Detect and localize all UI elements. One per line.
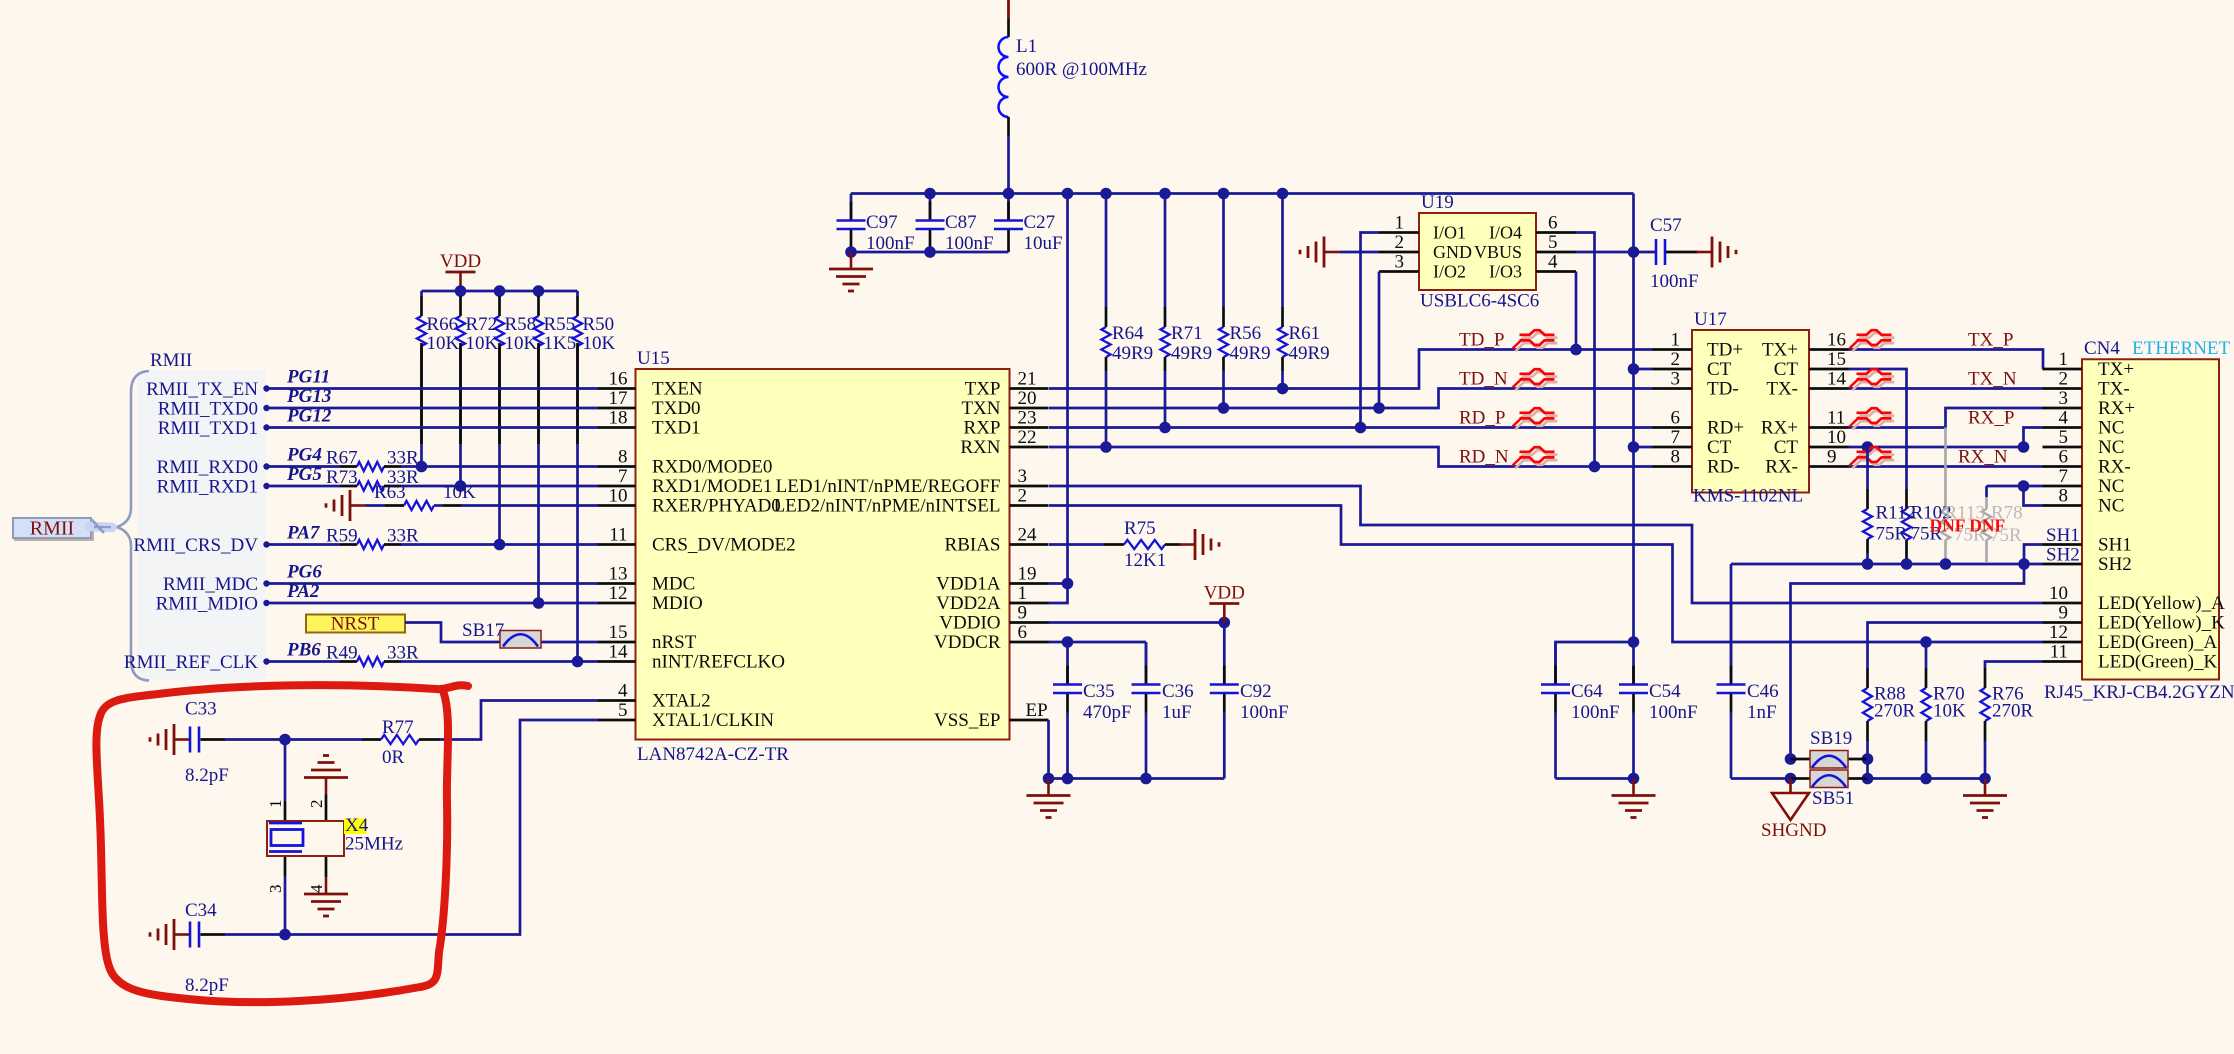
svg-text:R61: R61 bbox=[1289, 323, 1321, 344]
svg-text:100nF: 100nF bbox=[1650, 271, 1699, 292]
svg-text:NC: NC bbox=[2098, 496, 2124, 517]
svg-text:I/O4: I/O4 bbox=[1489, 223, 1522, 243]
svg-text:3: 3 bbox=[2059, 388, 2069, 409]
svg-text:TXEN: TXEN bbox=[652, 379, 703, 400]
svg-text:18: 18 bbox=[609, 408, 628, 429]
svg-text:0R: 0R bbox=[382, 747, 405, 768]
svg-text:10: 10 bbox=[2049, 583, 2068, 604]
svg-text:SH1: SH1 bbox=[2098, 535, 2132, 556]
svg-text:CT: CT bbox=[1774, 359, 1799, 380]
svg-text:2: 2 bbox=[307, 800, 326, 809]
svg-text:PA7: PA7 bbox=[286, 523, 321, 544]
svg-text:nRST: nRST bbox=[652, 632, 697, 653]
svg-text:NRST: NRST bbox=[331, 614, 380, 635]
svg-text:6: 6 bbox=[2059, 447, 2069, 468]
svg-text:6: 6 bbox=[1018, 622, 1028, 643]
svg-text:RMII_TXD1: RMII_TXD1 bbox=[158, 418, 258, 439]
svg-text:11: 11 bbox=[1827, 408, 1845, 429]
svg-text:PB6: PB6 bbox=[286, 640, 321, 661]
svg-text:TX-: TX- bbox=[1766, 379, 1798, 400]
svg-text:RMII_RXD1: RMII_RXD1 bbox=[157, 477, 258, 498]
svg-text:3: 3 bbox=[1395, 252, 1405, 273]
svg-text:15: 15 bbox=[609, 622, 628, 643]
svg-text:20: 20 bbox=[1018, 388, 1037, 409]
svg-text:2: 2 bbox=[1018, 486, 1028, 507]
svg-text:10K: 10K bbox=[466, 333, 499, 354]
svg-text:PG4: PG4 bbox=[286, 445, 322, 466]
svg-text:RMII: RMII bbox=[30, 518, 74, 540]
svg-text:R58: R58 bbox=[505, 314, 537, 335]
svg-text:LED(Green)_K: LED(Green)_K bbox=[2098, 652, 2218, 673]
svg-text:10uF: 10uF bbox=[1024, 233, 1063, 254]
svg-text:RD+: RD+ bbox=[1707, 418, 1744, 439]
svg-text:17: 17 bbox=[609, 388, 628, 409]
svg-text:R71: R71 bbox=[1171, 323, 1203, 344]
svg-text:RMII_TX_EN: RMII_TX_EN bbox=[146, 379, 258, 400]
svg-text:I/O2: I/O2 bbox=[1433, 262, 1466, 282]
svg-text:2: 2 bbox=[2059, 369, 2069, 390]
svg-text:1: 1 bbox=[1018, 583, 1028, 604]
svg-text:TX_N: TX_N bbox=[1968, 369, 2017, 390]
svg-text:PG12: PG12 bbox=[286, 406, 332, 427]
svg-text:25MHz: 25MHz bbox=[345, 834, 403, 855]
svg-text:RMII_TXD0: RMII_TXD0 bbox=[158, 399, 258, 420]
svg-text:LED(Yellow)_K: LED(Yellow)_K bbox=[2098, 613, 2225, 634]
svg-text:C33: C33 bbox=[185, 699, 217, 720]
svg-text:TXD0: TXD0 bbox=[652, 398, 701, 419]
svg-text:1: 1 bbox=[2059, 349, 2069, 370]
svg-text:1: 1 bbox=[1671, 330, 1681, 351]
svg-text:TD_P: TD_P bbox=[1459, 330, 1504, 351]
svg-text:EP: EP bbox=[1026, 700, 1048, 721]
svg-text:RMII_MDC: RMII_MDC bbox=[163, 574, 258, 595]
svg-text:RXER/PHYAD0: RXER/PHYAD0 bbox=[652, 496, 781, 517]
svg-text:R55: R55 bbox=[544, 314, 576, 335]
svg-text:TXN: TXN bbox=[961, 398, 1000, 419]
svg-text:7: 7 bbox=[1671, 427, 1681, 448]
svg-text:5: 5 bbox=[2059, 427, 2069, 448]
svg-text:PG5: PG5 bbox=[286, 464, 322, 485]
svg-text:I/O3: I/O3 bbox=[1489, 262, 1522, 282]
svg-text:1nF: 1nF bbox=[1747, 702, 1777, 723]
svg-text:8: 8 bbox=[1671, 447, 1681, 468]
svg-text:R77: R77 bbox=[382, 717, 414, 738]
svg-text:C34: C34 bbox=[185, 900, 217, 921]
svg-text:PG13: PG13 bbox=[286, 386, 331, 407]
svg-text:49R9: 49R9 bbox=[1230, 343, 1271, 364]
svg-text:14: 14 bbox=[609, 642, 629, 663]
svg-text:RX+: RX+ bbox=[1761, 418, 1798, 439]
svg-text:ETHERNET: ETHERNET bbox=[2132, 338, 2231, 359]
svg-text:10K: 10K bbox=[505, 333, 538, 354]
svg-text:U15: U15 bbox=[637, 348, 670, 369]
svg-text:VDD: VDD bbox=[1204, 583, 1245, 604]
svg-text:CT: CT bbox=[1774, 437, 1799, 458]
svg-text:5: 5 bbox=[618, 700, 628, 721]
svg-text:9: 9 bbox=[1018, 603, 1028, 624]
svg-text:10: 10 bbox=[609, 486, 628, 507]
svg-text:100nF: 100nF bbox=[1571, 702, 1620, 723]
svg-text:VDDIO: VDDIO bbox=[939, 613, 1000, 634]
svg-text:7: 7 bbox=[2059, 466, 2069, 487]
svg-text:3: 3 bbox=[1018, 466, 1028, 487]
svg-text:6: 6 bbox=[1671, 408, 1681, 429]
svg-text:RJ45_KRJ-CB4.2GYZNL: RJ45_KRJ-CB4.2GYZNL bbox=[2044, 682, 2234, 703]
svg-text:19: 19 bbox=[1018, 564, 1037, 585]
svg-text:10K: 10K bbox=[443, 482, 476, 503]
svg-text:SH1: SH1 bbox=[2046, 525, 2080, 546]
svg-text:23: 23 bbox=[1018, 408, 1037, 429]
svg-text:33R: 33R bbox=[387, 448, 419, 469]
svg-text:NC: NC bbox=[2098, 476, 2124, 497]
svg-text:C35: C35 bbox=[1083, 681, 1115, 702]
svg-text:I/O1: I/O1 bbox=[1433, 223, 1466, 243]
svg-text:LED2/nINT/nPME/nINTSEL: LED2/nINT/nPME/nINTSEL bbox=[774, 496, 1001, 517]
svg-text:270R: 270R bbox=[1992, 701, 2034, 722]
svg-text:LED1/nINT/nPME/REGOFF: LED1/nINT/nPME/REGOFF bbox=[776, 476, 1001, 497]
svg-text:XTAL2: XTAL2 bbox=[652, 691, 711, 712]
svg-text:GND: GND bbox=[1433, 242, 1472, 262]
svg-text:22: 22 bbox=[1018, 427, 1037, 448]
svg-text:CT: CT bbox=[1707, 437, 1732, 458]
svg-text:TD_N: TD_N bbox=[1459, 369, 1508, 390]
svg-text:nINT/REFCLKO: nINT/REFCLKO bbox=[652, 652, 785, 673]
svg-text:VDD2A: VDD2A bbox=[936, 593, 1001, 614]
svg-text:470pF: 470pF bbox=[1083, 702, 1132, 723]
svg-text:R49: R49 bbox=[326, 643, 358, 664]
svg-text:CT: CT bbox=[1707, 359, 1732, 380]
svg-text:8: 8 bbox=[2059, 486, 2069, 507]
svg-text:U19: U19 bbox=[1421, 192, 1454, 213]
svg-text:100nF: 100nF bbox=[1240, 702, 1289, 723]
svg-text:4: 4 bbox=[1548, 252, 1558, 273]
svg-text:7: 7 bbox=[618, 466, 628, 487]
svg-text:C97: C97 bbox=[866, 212, 898, 233]
svg-text:RXD1/MODE1: RXD1/MODE1 bbox=[652, 476, 772, 497]
svg-text:MDIO: MDIO bbox=[652, 593, 703, 614]
svg-text:9: 9 bbox=[1827, 447, 1837, 468]
svg-text:SB51: SB51 bbox=[1812, 788, 1854, 809]
svg-text:TXD1: TXD1 bbox=[652, 418, 701, 439]
svg-text:100nF: 100nF bbox=[1649, 702, 1698, 723]
svg-text:R64: R64 bbox=[1112, 323, 1144, 344]
svg-text:RX+: RX+ bbox=[2098, 398, 2135, 419]
svg-text:SH2: SH2 bbox=[2098, 554, 2132, 575]
svg-text:SB19: SB19 bbox=[1810, 728, 1852, 749]
svg-text:C87: C87 bbox=[945, 212, 977, 233]
svg-text:12K1: 12K1 bbox=[1124, 550, 1166, 571]
svg-text:49R9: 49R9 bbox=[1112, 343, 1153, 364]
svg-text:R73: R73 bbox=[326, 467, 358, 488]
svg-text:SH2: SH2 bbox=[2046, 545, 2080, 566]
svg-text:RXN: RXN bbox=[960, 437, 1000, 458]
svg-text:2: 2 bbox=[1671, 349, 1681, 370]
svg-text:24: 24 bbox=[1018, 525, 1038, 546]
svg-text:3: 3 bbox=[1671, 369, 1681, 390]
svg-text:SB17: SB17 bbox=[462, 620, 504, 641]
svg-text:MDC: MDC bbox=[652, 574, 695, 595]
svg-text:VDD: VDD bbox=[440, 251, 481, 272]
svg-text:R72: R72 bbox=[466, 314, 498, 335]
svg-text:49R9: 49R9 bbox=[1171, 343, 1212, 364]
svg-text:RX-: RX- bbox=[2098, 457, 2131, 478]
svg-text:8: 8 bbox=[618, 447, 628, 468]
svg-text:10K: 10K bbox=[583, 333, 616, 354]
svg-text:C27: C27 bbox=[1024, 212, 1056, 233]
svg-text:TD-: TD- bbox=[1707, 379, 1739, 400]
svg-text:R67: R67 bbox=[326, 448, 358, 469]
svg-text:75R: 75R bbox=[1876, 524, 1908, 545]
svg-text:SHGND: SHGND bbox=[1761, 820, 1826, 841]
svg-text:VDD1A: VDD1A bbox=[936, 574, 1001, 595]
svg-text:8.2pF: 8.2pF bbox=[185, 765, 229, 786]
svg-text:RD_P: RD_P bbox=[1459, 408, 1505, 429]
svg-text:8.2pF: 8.2pF bbox=[185, 975, 229, 996]
svg-text:C36: C36 bbox=[1162, 681, 1194, 702]
svg-text:15: 15 bbox=[1827, 349, 1846, 370]
svg-text:R63: R63 bbox=[374, 482, 406, 503]
svg-text:6: 6 bbox=[1548, 213, 1558, 234]
svg-text:TD+: TD+ bbox=[1707, 340, 1743, 361]
svg-text:VBUS: VBUS bbox=[1474, 242, 1522, 262]
svg-text:RMII: RMII bbox=[150, 350, 192, 371]
svg-text:TX+: TX+ bbox=[1762, 340, 1798, 361]
svg-text:LAN8742A-CZ-TR: LAN8742A-CZ-TR bbox=[637, 744, 789, 765]
svg-text:C92: C92 bbox=[1240, 681, 1272, 702]
svg-text:270R: 270R bbox=[1874, 701, 1916, 722]
svg-text:C54: C54 bbox=[1649, 681, 1681, 702]
svg-text:R66: R66 bbox=[427, 314, 459, 335]
svg-text:600R @100MHz: 600R @100MHz bbox=[1016, 59, 1147, 80]
svg-text:KMS-1102NL: KMS-1102NL bbox=[1693, 486, 1803, 507]
svg-text:C64: C64 bbox=[1571, 681, 1603, 702]
svg-text:21: 21 bbox=[1018, 369, 1037, 390]
svg-text:CN4: CN4 bbox=[2084, 338, 2120, 359]
svg-text:10: 10 bbox=[1827, 427, 1846, 448]
svg-text:L1: L1 bbox=[1016, 36, 1037, 57]
svg-text:DNF DNF: DNF DNF bbox=[1930, 516, 2006, 536]
svg-text:NC: NC bbox=[2098, 437, 2124, 458]
svg-text:TXP: TXP bbox=[965, 379, 1001, 400]
svg-text:USBLC6-4SC6: USBLC6-4SC6 bbox=[1420, 291, 1539, 312]
svg-text:16: 16 bbox=[1827, 330, 1846, 351]
svg-text:RMII_CRS_DV: RMII_CRS_DV bbox=[133, 535, 258, 556]
svg-text:5: 5 bbox=[1548, 232, 1558, 253]
svg-text:R59: R59 bbox=[326, 526, 358, 547]
svg-text:CRS_DV/MODE2: CRS_DV/MODE2 bbox=[652, 535, 796, 556]
svg-text:R75: R75 bbox=[1124, 518, 1156, 539]
svg-text:RX_P: RX_P bbox=[1968, 408, 2014, 429]
svg-text:RD_N: RD_N bbox=[1459, 447, 1509, 468]
svg-text:C46: C46 bbox=[1747, 681, 1779, 702]
svg-text:4: 4 bbox=[307, 884, 326, 893]
svg-text:33R: 33R bbox=[387, 526, 419, 547]
svg-text:10K: 10K bbox=[1933, 701, 1966, 722]
svg-text:12: 12 bbox=[609, 583, 628, 604]
svg-text:3: 3 bbox=[266, 885, 285, 894]
svg-text:12: 12 bbox=[2049, 622, 2068, 643]
svg-text:9: 9 bbox=[2059, 603, 2069, 624]
svg-text:13: 13 bbox=[609, 564, 628, 585]
svg-text:1K5: 1K5 bbox=[544, 333, 577, 354]
svg-text:RXD0/MODE0: RXD0/MODE0 bbox=[652, 457, 772, 478]
svg-text:14: 14 bbox=[1827, 369, 1847, 390]
svg-text:33R: 33R bbox=[387, 643, 419, 664]
svg-text:11: 11 bbox=[609, 525, 627, 546]
svg-text:2: 2 bbox=[1395, 232, 1405, 253]
svg-text:RXP: RXP bbox=[964, 418, 1001, 439]
svg-text:R50: R50 bbox=[583, 314, 615, 335]
svg-text:XTAL1/CLKIN: XTAL1/CLKIN bbox=[652, 710, 774, 731]
svg-text:4: 4 bbox=[618, 681, 628, 702]
svg-text:1: 1 bbox=[266, 800, 285, 809]
svg-text:U17: U17 bbox=[1694, 309, 1727, 330]
svg-text:16: 16 bbox=[609, 369, 628, 390]
svg-text:VDDCR: VDDCR bbox=[934, 632, 1001, 653]
svg-text:4: 4 bbox=[2059, 408, 2069, 429]
svg-text:NC: NC bbox=[2098, 418, 2124, 439]
svg-text:RMII_RXD0: RMII_RXD0 bbox=[157, 457, 258, 478]
svg-text:PG11: PG11 bbox=[286, 367, 330, 388]
svg-text:PG6: PG6 bbox=[286, 562, 322, 583]
svg-text:LED(Yellow)_A: LED(Yellow)_A bbox=[2098, 593, 2225, 614]
svg-text:10K: 10K bbox=[427, 333, 460, 354]
svg-text:RX-: RX- bbox=[1765, 457, 1798, 478]
svg-text:RD-: RD- bbox=[1707, 457, 1740, 478]
svg-text:VSS_EP: VSS_EP bbox=[934, 710, 1001, 731]
svg-text:TX+: TX+ bbox=[2098, 359, 2134, 380]
svg-text:RX_N: RX_N bbox=[1958, 447, 2008, 468]
svg-text:LED(Green)_A: LED(Green)_A bbox=[2098, 632, 2218, 653]
svg-text:TX_P: TX_P bbox=[1968, 330, 2013, 351]
svg-text:RMII_REF_CLK: RMII_REF_CLK bbox=[124, 652, 258, 673]
svg-text:11: 11 bbox=[2050, 642, 2068, 663]
svg-text:RMII_MDIO: RMII_MDIO bbox=[156, 594, 258, 615]
svg-text:C57: C57 bbox=[1650, 215, 1682, 236]
svg-text:1uF: 1uF bbox=[1162, 702, 1192, 723]
svg-text:1: 1 bbox=[1395, 213, 1405, 234]
svg-text:RBIAS: RBIAS bbox=[945, 535, 1001, 556]
svg-text:49R9: 49R9 bbox=[1289, 343, 1330, 364]
svg-text:R56: R56 bbox=[1230, 323, 1262, 344]
svg-text:PA2: PA2 bbox=[286, 581, 320, 602]
svg-text:TX-: TX- bbox=[2098, 379, 2130, 400]
